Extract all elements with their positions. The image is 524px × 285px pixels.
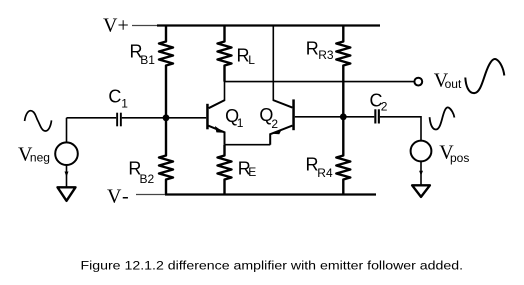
wire Q1 collector [224, 81, 226, 101]
transistor Q1 [206, 104, 209, 130]
resistor RR4 [336, 117, 350, 194]
terminal Vout [414, 78, 422, 86]
ground left [58, 187, 76, 201]
node right base junction [340, 113, 347, 120]
svg-text:1: 1 [237, 116, 244, 130]
resistor RB2 [159, 118, 173, 194]
sine squiggle at Vpos input [430, 107, 455, 129]
svg-text:R: R [306, 38, 319, 58]
svg-text:-: - [122, 186, 129, 208]
ground right [412, 185, 430, 197]
svg-text:B2: B2 [140, 172, 155, 186]
wire emitter node [225, 144, 271, 146]
svg-text:Figure 12.1.2 difference ampli: Figure 12.1.2 difference amplifier with … [80, 259, 463, 273]
svg-text:B1: B1 [140, 53, 155, 67]
capacitor C1 [116, 113, 118, 127]
capacitor C2 [374, 109, 376, 123]
resistor RL [218, 25, 232, 82]
wire V+ rail [132, 25, 380, 27]
svg-text:pos: pos [450, 151, 469, 165]
wire Q2 base line [295, 117, 421, 141]
sine squiggle at Vneg input [25, 111, 52, 131]
wire Q2 collector [272, 25, 274, 101]
svg-text:L: L [248, 53, 255, 67]
wire Vout line [225, 81, 415, 83]
svg-text:neg: neg [30, 151, 50, 165]
svg-text:V+: V+ [103, 15, 129, 37]
svg-text:R3: R3 [318, 48, 334, 62]
svg-text:C: C [108, 87, 121, 107]
resistor RR3 [336, 25, 350, 117]
source Vpos [411, 141, 432, 162]
svg-text:E: E [248, 165, 256, 179]
svg-text:out: out [445, 77, 462, 91]
svg-text:2: 2 [271, 117, 278, 131]
svg-text:2: 2 [381, 100, 388, 114]
svg-text:V: V [107, 186, 122, 208]
wire Vneg branch [66, 118, 68, 143]
resistor RB1 [159, 25, 173, 118]
svg-text:1: 1 [121, 96, 128, 110]
source Vneg [55, 142, 78, 165]
wire Q1 base input line [67, 117, 207, 119]
svg-text:R4: R4 [317, 166, 333, 180]
sine squiggle at Vout [465, 59, 504, 93]
wire Vpos branch [420, 161, 422, 185]
transistor Q2 [292, 99, 295, 130]
wire V- rail [136, 194, 376, 196]
node left base junction [163, 114, 170, 121]
resistor RE [218, 145, 232, 194]
